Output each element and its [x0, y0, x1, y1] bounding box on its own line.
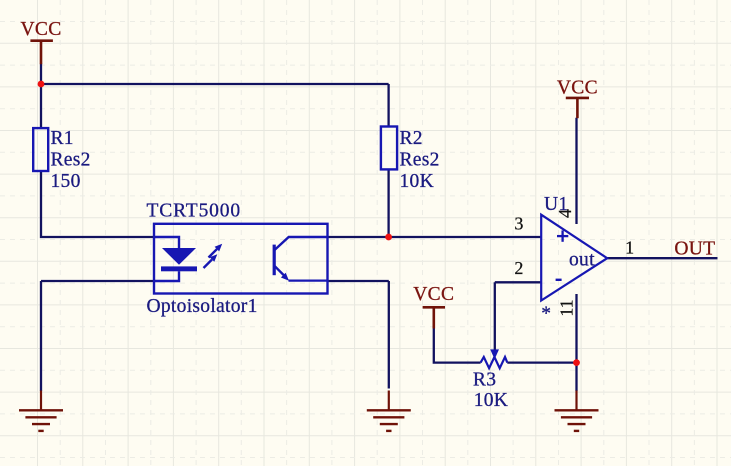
- svg-text:R2: R2: [400, 128, 423, 149]
- svg-text:R3: R3: [473, 370, 496, 391]
- svg-text:10K: 10K: [400, 171, 434, 192]
- svg-text:VCC: VCC: [21, 19, 62, 40]
- svg-text:out: out: [569, 249, 595, 270]
- svg-text:Res2: Res2: [51, 150, 91, 171]
- svg-text:*: *: [541, 304, 551, 325]
- svg-text:11: 11: [557, 299, 577, 316]
- svg-text:R1: R1: [51, 128, 74, 149]
- svg-text:3: 3: [514, 214, 523, 234]
- svg-text:2: 2: [514, 258, 523, 278]
- svg-text:Optoisolator1: Optoisolator1: [147, 296, 258, 317]
- svg-text:OUT: OUT: [674, 239, 715, 260]
- svg-text:Res2: Res2: [400, 150, 440, 171]
- svg-text:10K: 10K: [474, 390, 508, 411]
- svg-text:VCC: VCC: [413, 284, 454, 305]
- svg-text:4: 4: [555, 209, 575, 218]
- svg-text:1: 1: [625, 237, 634, 257]
- svg-text:VCC: VCC: [557, 78, 598, 99]
- svg-text:150: 150: [51, 171, 81, 192]
- svg-text:TCRT5000: TCRT5000: [147, 201, 241, 222]
